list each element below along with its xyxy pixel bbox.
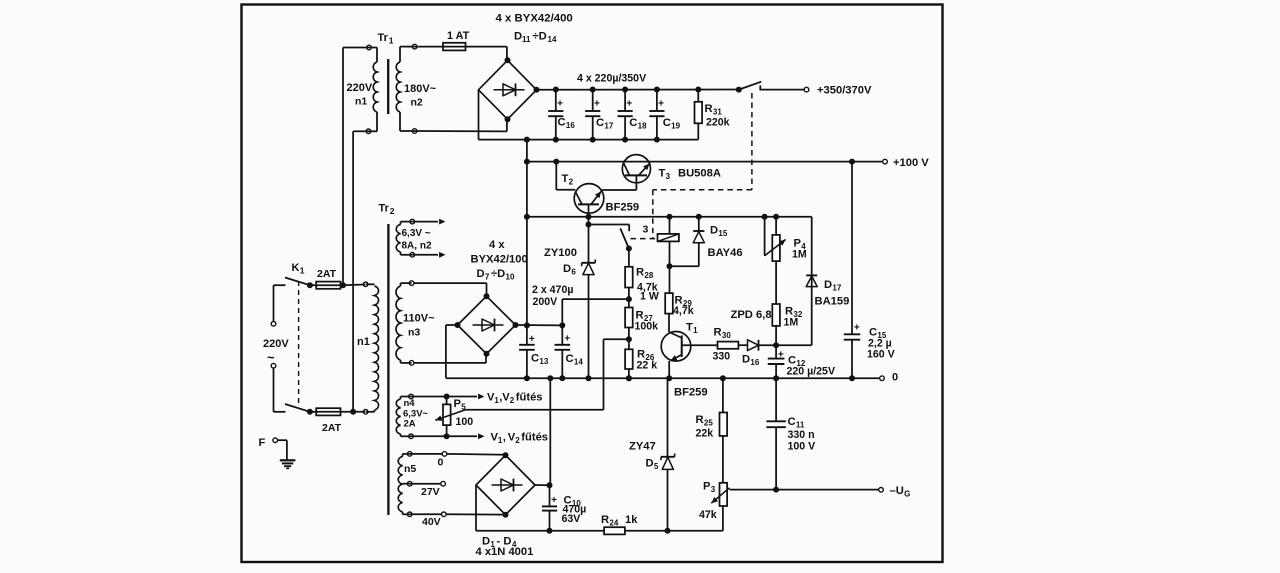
svg-text:4,7k: 4,7k (673, 305, 694, 317)
svg-text:+: + (529, 334, 535, 345)
svg-text:+100 V: +100 V (893, 157, 929, 169)
svg-text:330: 330 (713, 351, 731, 363)
svg-text:fűtés: fűtés (516, 392, 543, 404)
svg-text:ZY100: ZY100 (544, 247, 577, 259)
svg-text:÷D: ÷D (491, 268, 505, 280)
svg-text:C: C (629, 117, 637, 129)
svg-text:+: + (778, 350, 784, 361)
svg-text:4 x BYX42/400: 4 x BYX42/400 (496, 13, 573, 25)
svg-text:220V: 220V (347, 82, 373, 94)
svg-text:+: + (557, 99, 563, 110)
svg-text:6,3V ~: 6,3V ~ (402, 228, 431, 239)
svg-text:R: R (696, 414, 704, 426)
svg-text:fűtés: fűtés (521, 432, 548, 444)
svg-text:3: 3 (666, 172, 671, 181)
svg-text:220V: 220V (263, 338, 289, 350)
svg-text:2: 2 (515, 436, 520, 445)
svg-text:180V~: 180V~ (404, 83, 437, 95)
svg-text:110V~: 110V~ (403, 313, 435, 325)
svg-text:C: C (596, 117, 604, 129)
svg-text:100: 100 (456, 416, 474, 428)
svg-text:K: K (292, 262, 300, 274)
svg-text:1M: 1M (792, 249, 807, 261)
svg-text:D: D (477, 268, 485, 280)
svg-text:+: + (564, 334, 570, 345)
svg-text:C: C (531, 353, 539, 365)
svg-text:40V: 40V (422, 516, 441, 528)
svg-text:D: D (563, 263, 571, 275)
svg-text:T: T (562, 173, 569, 185)
svg-text:BF259: BF259 (606, 202, 640, 214)
svg-text:14: 14 (574, 358, 583, 367)
svg-text:+: + (626, 99, 632, 110)
svg-text:+: + (658, 99, 664, 110)
svg-text:1 AT: 1 AT (447, 30, 470, 42)
svg-text:100k: 100k (635, 321, 659, 333)
svg-text:ZPD 6,8: ZPD 6,8 (731, 309, 772, 321)
svg-text:÷D: ÷D (533, 31, 547, 43)
svg-text:4 x: 4 x (489, 239, 505, 251)
svg-text:0: 0 (438, 457, 444, 469)
svg-text:2AT: 2AT (317, 268, 337, 280)
svg-text:27V: 27V (421, 486, 440, 498)
svg-text:Tr: Tr (378, 32, 389, 44)
svg-text:15: 15 (718, 229, 727, 238)
svg-text:D: D (824, 279, 832, 291)
svg-text:31: 31 (713, 108, 722, 117)
svg-text:G: G (904, 490, 910, 499)
svg-text:,: , (503, 432, 506, 444)
svg-text:22 k: 22 k (637, 360, 658, 372)
svg-text:n1: n1 (355, 96, 367, 108)
svg-text:5: 5 (654, 462, 659, 471)
svg-text:R: R (705, 103, 713, 115)
svg-text:T: T (686, 322, 693, 334)
svg-text:BU508A: BU508A (678, 168, 721, 180)
svg-text:D: D (710, 225, 718, 237)
svg-text:BF259: BF259 (674, 387, 708, 399)
svg-text:Tr: Tr (379, 203, 390, 215)
svg-text:18: 18 (638, 122, 647, 131)
svg-text:5: 5 (461, 403, 466, 412)
svg-text:+350/370V: +350/370V (817, 85, 872, 97)
svg-text:R: R (714, 327, 722, 339)
svg-text:D: D (742, 354, 750, 366)
svg-text:16: 16 (566, 121, 575, 130)
svg-text:3: 3 (643, 224, 649, 236)
svg-text:n5: n5 (404, 463, 416, 475)
svg-text:F: F (259, 437, 266, 449)
svg-text:24: 24 (609, 519, 618, 528)
svg-text:R: R (601, 514, 609, 526)
svg-text:1 W: 1 W (640, 290, 659, 302)
svg-text:220 µ/25V: 220 µ/25V (787, 366, 836, 378)
svg-text:T: T (659, 168, 666, 180)
svg-text:1: 1 (693, 326, 698, 335)
svg-text:22k: 22k (696, 428, 714, 440)
svg-text:2 x 470µ: 2 x 470µ (532, 284, 573, 296)
svg-text:C: C (558, 117, 566, 129)
svg-text:6: 6 (571, 268, 576, 277)
svg-text:2: 2 (569, 178, 574, 187)
svg-text:28: 28 (644, 271, 653, 280)
svg-text:+: + (551, 495, 557, 506)
svg-text:n3: n3 (408, 327, 420, 339)
svg-text:220k: 220k (706, 117, 730, 129)
svg-text:16: 16 (750, 358, 759, 367)
svg-text:30: 30 (722, 331, 731, 340)
svg-text:17: 17 (832, 284, 841, 293)
svg-text:BAY46: BAY46 (708, 247, 743, 259)
svg-text:2A: 2A (404, 419, 416, 430)
svg-text:2AT: 2AT (322, 422, 342, 434)
svg-text:C: C (788, 416, 796, 428)
svg-text:D: D (646, 458, 654, 470)
svg-text:2: 2 (510, 396, 515, 405)
svg-text:1: 1 (300, 266, 305, 276)
svg-text:0: 0 (892, 372, 898, 384)
svg-text:+: + (594, 99, 600, 110)
svg-text:+: + (854, 323, 860, 334)
svg-text:63V: 63V (562, 513, 581, 525)
svg-text:330 n: 330 n (788, 429, 815, 441)
svg-text:n4: n4 (404, 398, 416, 409)
svg-text:11: 11 (522, 35, 531, 44)
svg-text:–U: –U (890, 485, 904, 497)
svg-text:25: 25 (704, 419, 713, 428)
svg-text:n2: n2 (411, 97, 423, 109)
svg-text:C: C (663, 117, 671, 129)
svg-text:C: C (566, 353, 574, 365)
svg-text:BA159: BA159 (815, 296, 850, 308)
svg-text:1: 1 (389, 36, 394, 46)
svg-text:160 V: 160 V (867, 349, 895, 361)
svg-text:4 x1N 4001: 4 x1N 4001 (476, 546, 534, 558)
svg-text:8A, n2: 8A, n2 (402, 241, 432, 252)
svg-text:n1: n1 (357, 336, 370, 348)
svg-text:47k: 47k (699, 509, 717, 521)
svg-text:200V: 200V (533, 296, 558, 308)
svg-text:10: 10 (506, 273, 515, 282)
svg-text:2: 2 (390, 206, 395, 216)
svg-text:19: 19 (671, 122, 680, 131)
svg-text:13: 13 (539, 357, 548, 366)
svg-text:3: 3 (711, 485, 716, 494)
svg-text:1k: 1k (625, 514, 638, 526)
svg-text:1M: 1M (784, 317, 799, 329)
svg-text:100 V: 100 V (788, 441, 816, 453)
svg-text:14: 14 (548, 35, 557, 44)
svg-text:7: 7 (485, 273, 490, 282)
svg-text:D: D (514, 31, 522, 43)
svg-text:R: R (636, 267, 644, 279)
svg-text:17: 17 (604, 122, 613, 131)
svg-text:4 x 220µ/350V: 4 x 220µ/350V (577, 73, 646, 85)
svg-text:ZY47: ZY47 (629, 441, 656, 453)
svg-text:BYX42/100: BYX42/100 (471, 254, 528, 266)
